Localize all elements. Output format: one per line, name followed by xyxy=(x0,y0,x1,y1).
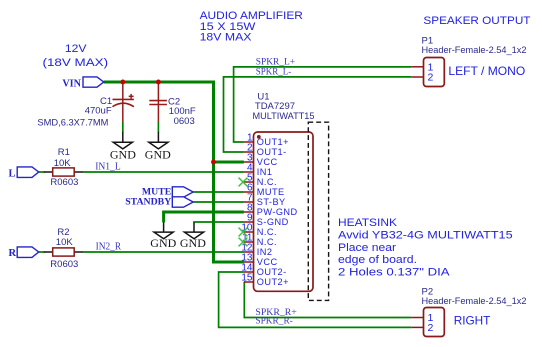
resistor R2 10K xyxy=(44,251,53,253)
net flag STANDBY xyxy=(125,197,193,208)
svg-text:Header-Female-2.54_1x2: Header-Female-2.54_1x2 xyxy=(422,45,527,56)
svg-text:2: 2 xyxy=(428,72,434,84)
capacitor C1 470uF polarized xyxy=(113,84,134,122)
wire VCC branch to pin 3 xyxy=(214,161,244,164)
U1 pin stubs 1-15 xyxy=(244,142,254,282)
annotation AUDIO AMPLIFIER title xyxy=(200,10,303,44)
svg-text:470uF: 470uF xyxy=(85,106,112,117)
wire R input to R2 xyxy=(39,251,45,253)
connector P1 pin stubs xyxy=(411,67,423,77)
svg-text:GND: GND xyxy=(180,236,206,250)
svg-text:IN2_R: IN2_R xyxy=(96,241,122,252)
svg-text:2: 2 xyxy=(428,322,434,334)
U1 pin 1 marker dot xyxy=(257,135,261,139)
wire C1 to GND xyxy=(122,122,124,133)
wire IN2_R R2 to pin 12 xyxy=(84,251,244,253)
net flag MUTE xyxy=(142,187,193,198)
svg-text:OUT2+: OUT2+ xyxy=(257,277,289,287)
net flag VIN xyxy=(62,77,103,89)
junction on VIN rail at C2 xyxy=(156,80,161,85)
svg-text:OUT1+: OUT1+ xyxy=(257,137,289,147)
svg-text:Header-Female-2.54_1x2: Header-Female-2.54_1x2 xyxy=(422,296,527,307)
wire VIN rail (VCC thick) xyxy=(104,82,244,262)
svg-text:RIGHT: RIGHT xyxy=(454,314,491,328)
U1 pin numbers xyxy=(241,133,253,284)
ground GND1 under C1 xyxy=(113,132,132,149)
wire PW-GND pin 8 to ground (thick) xyxy=(164,212,244,222)
svg-text:edge of board.: edge of board. xyxy=(338,254,417,266)
junction on VCC rail at pin 3 branch xyxy=(211,160,216,165)
svg-text:10K: 10K xyxy=(56,237,74,248)
wire C2 to GND xyxy=(157,122,159,133)
svg-text:VIN: VIN xyxy=(62,78,81,89)
wire L input to R1 xyxy=(39,171,45,173)
svg-text:VCC: VCC xyxy=(257,157,278,167)
wire STANDBY to pin 7 xyxy=(194,201,244,203)
junction on VIN rail at C1 xyxy=(120,80,125,85)
wire IN1_L R1 to pin 4 xyxy=(84,171,244,173)
wire pin 15 OUT2+ to P2 (SPKR_R+) xyxy=(244,282,411,318)
ground GND3 at pin 8 PW-GND xyxy=(154,222,173,239)
ground GND4 at pin 9 S-GND xyxy=(184,223,203,239)
svg-text:R0603: R0603 xyxy=(50,177,78,188)
svg-text:STANDBY: STANDBY xyxy=(125,197,171,208)
svg-text:PW-GND: PW-GND xyxy=(257,207,298,217)
svg-text:R: R xyxy=(9,248,17,259)
svg-text:R1: R1 xyxy=(58,147,70,158)
net flag L xyxy=(9,167,39,179)
ground GND2 under C2 xyxy=(149,132,168,149)
svg-text:0603: 0603 xyxy=(174,116,195,127)
svg-text:OUT2-: OUT2- xyxy=(257,267,287,277)
capacitor C2 100nF xyxy=(149,84,167,122)
U1 heatsink tab dashed outline xyxy=(308,122,328,300)
svg-text:VCC: VCC xyxy=(257,257,278,267)
wire pin 14 OUT2- to P2 (SPKR_R-) xyxy=(219,272,412,327)
svg-text:15: 15 xyxy=(241,273,253,284)
svg-text:ST-BY: ST-BY xyxy=(257,197,286,207)
svg-text:GND: GND xyxy=(150,236,176,250)
wire MUTE to pin 6 xyxy=(194,191,244,193)
svg-text:N.C.: N.C. xyxy=(257,177,277,187)
connector P1 Header-Female body xyxy=(424,58,445,87)
svg-text:SPEAKER OUTPUT: SPEAKER OUTPUT xyxy=(423,15,530,27)
svg-text:IN1_L: IN1_L xyxy=(95,162,121,173)
no-connect X pin 10 xyxy=(239,228,248,237)
no-connect X pin 11 xyxy=(239,238,248,247)
annotation 12V (18V MAX) xyxy=(43,43,109,69)
U1 reference fields xyxy=(253,91,315,122)
svg-text:10K: 10K xyxy=(54,158,72,169)
wire pin 1 OUT1+ to P1 (SPKR_L+) xyxy=(234,67,412,142)
wire pin 2 OUT1- to P1 (SPKR_L-) xyxy=(224,77,412,152)
wire S-GND pin 9 to ground xyxy=(194,222,244,223)
svg-text:MULTIWATT15: MULTIWATT15 xyxy=(253,111,315,122)
connector P2 pin stubs xyxy=(411,318,423,328)
svg-text:2 Holes 0.137" DIA: 2 Holes 0.137" DIA xyxy=(338,267,450,279)
P2 reference fields xyxy=(422,287,527,307)
annotation HEATSINK note xyxy=(338,217,513,279)
svg-text:Place near: Place near xyxy=(338,242,396,254)
svg-text:R0603: R0603 xyxy=(50,259,78,270)
svg-text:N.C.: N.C. xyxy=(257,227,277,237)
svg-text:SMD,6.3X7.7MM: SMD,6.3X7.7MM xyxy=(37,117,108,128)
net flag R xyxy=(9,247,39,259)
svg-text:IN1: IN1 xyxy=(257,167,273,177)
op IC U1 TDA7297 body xyxy=(254,132,314,291)
svg-text:SPKR_L+: SPKR_L+ xyxy=(256,58,295,68)
svg-text:L: L xyxy=(9,168,16,179)
svg-text:HEATSINK: HEATSINK xyxy=(338,217,398,229)
svg-text:LEFT / MONO: LEFT / MONO xyxy=(448,64,525,78)
svg-text:N.C.: N.C. xyxy=(257,237,277,247)
svg-text:Avvid YB32-4G MULTIWATT15: Avvid YB32-4G MULTIWATT15 xyxy=(338,229,513,241)
resistor R1 10K xyxy=(44,171,53,173)
svg-text:SPKR_L-: SPKR_L- xyxy=(256,68,291,78)
U1 pin names xyxy=(257,137,298,287)
svg-text:IN2: IN2 xyxy=(257,247,273,257)
svg-text:MUTE: MUTE xyxy=(257,187,285,197)
svg-text:GND: GND xyxy=(145,147,171,161)
svg-text:18V MAX: 18V MAX xyxy=(200,32,253,44)
no-connect X pin 5 xyxy=(239,178,248,187)
svg-text:(18V MAX): (18V MAX) xyxy=(43,57,109,69)
P1 reference fields xyxy=(422,36,527,56)
svg-text:GND: GND xyxy=(110,147,136,161)
svg-text:S-GND: S-GND xyxy=(257,217,289,227)
svg-text:SPKR_R-: SPKR_R- xyxy=(255,317,292,327)
svg-text:OUT1-: OUT1- xyxy=(257,147,287,157)
svg-text:12V: 12V xyxy=(65,43,87,55)
connector P2 Header-Female body xyxy=(424,308,445,337)
